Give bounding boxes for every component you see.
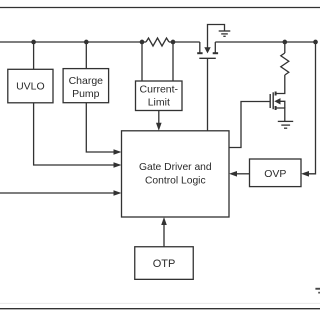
block Gate Driver and Control Logic (122, 131, 230, 217)
arrowhead sense into OVP (301, 171, 309, 177)
svg-text:Current-: Current- (140, 83, 179, 95)
wire right resistor drop from rail (284, 42, 286, 53)
arrowhead Current-Limit into gate driver (156, 123, 162, 131)
node junction dot (resistor right / current limit sense) (171, 40, 176, 45)
resistor Rsense (horizontal, top rail) (146, 38, 169, 46)
svg-text:UVLO: UVLO (16, 81, 45, 93)
wire current limit left sense drop (141, 42, 143, 81)
wire UVLO output to gate driver (34, 103, 114, 165)
svg-text:Gate Driver and: Gate Driver and (139, 162, 212, 173)
transistor Q1 right terminal (214, 42, 216, 53)
svg-text:Control Logic: Control Logic (145, 176, 206, 187)
svg-text:Limit: Limit (148, 97, 170, 109)
block OVP (250, 159, 302, 187)
wire top rail between resistor and pass FET (169, 41, 200, 43)
wire Current-Limit output down (158, 111, 160, 124)
wire Q2 source (276, 108, 285, 121)
wire Q1 gate down to gate driver (207, 58, 209, 131)
arrowhead input into gate driver (114, 190, 122, 196)
ground symbol (top, body of Q1) (219, 30, 231, 32)
wire external input (left edge) to gate driver (0, 192, 114, 194)
block OTP (135, 247, 194, 280)
arrowhead OVP into gate driver (229, 171, 237, 177)
transistor Q1 channel/gate plate (199, 57, 216, 59)
wire OVP sense from top rail (309, 42, 316, 174)
wire resistor to Q2 drain (276, 75, 285, 94)
transistor Q1 body arrow (points down into channel) (204, 47, 210, 53)
node junction dot (Charge Pump tap) (84, 40, 89, 45)
transistor Q1 left contact bar (197, 52, 202, 54)
transistor Q1 pass FET left terminal (199, 42, 201, 53)
block UVLO (8, 69, 53, 103)
wire Q2 body to source tie (281, 101, 285, 108)
wire Charge Pump drop from rail (85, 42, 87, 69)
transistor Q2 drain contact bar (275, 92, 277, 96)
transistor Q2 source contact bar (275, 106, 277, 110)
svg-text:OTP: OTP (153, 258, 176, 270)
node junction dot (resistor left / current limit sense) (140, 40, 145, 45)
transistor Q2 body arrow (points left into channel) (274, 98, 280, 104)
transistor Q1 right contact bar (213, 52, 218, 54)
svg-text:Pump: Pump (72, 88, 100, 100)
frame bottom border (0, 308, 320, 310)
frame top border (0, 7, 320, 9)
ground symbol (Q2 source) (278, 120, 293, 122)
svg-text:Charge: Charge (69, 75, 104, 87)
wire top rail right segment (215, 41, 315, 43)
wire Q2 gate to gate driver (229, 102, 270, 148)
resistor R2 (vertical, right) (281, 53, 289, 75)
transistor Q1 body wire up to ground (208, 25, 225, 48)
arrowhead UVLO into gate driver (114, 162, 122, 168)
node junction dot (far right OVP tap) (313, 40, 318, 45)
wire UVLO drop from rail (33, 42, 35, 69)
transistor Q2 gate plate (269, 94, 271, 108)
transistor Q2 channel plate (272, 92, 274, 109)
arrowhead OTP into gate driver (161, 217, 167, 225)
figure number fragment "7" at right edge (315, 288, 320, 294)
arrowhead Charge Pump into gate driver (114, 149, 122, 155)
svg-text:OVP: OVP (264, 168, 286, 180)
block Charge Pump (63, 69, 109, 103)
wire OVP output to gate driver (237, 173, 250, 175)
wire current limit right sense drop (172, 42, 174, 81)
wire OTP output up to gate driver (163, 224, 165, 247)
node junction dot (UVLO tap) (31, 40, 36, 45)
node junction dot (right resistor tap) (282, 40, 287, 45)
wire VIN top rail left segment (0, 41, 146, 43)
block Current-Limit (136, 81, 183, 111)
wire Charge Pump output to gate driver (86, 103, 113, 152)
